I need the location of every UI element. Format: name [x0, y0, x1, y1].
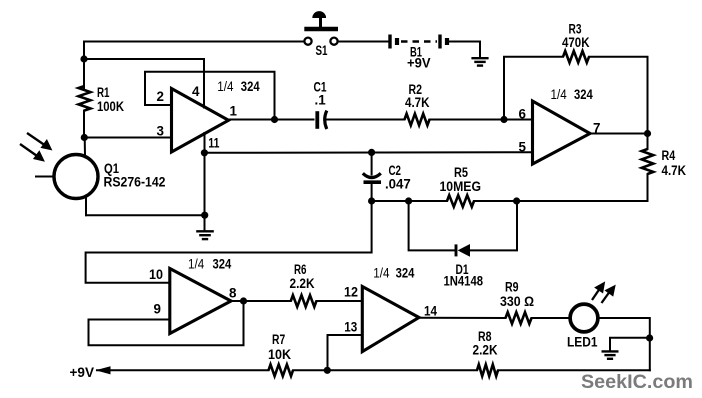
svg-text:2.2K: 2.2K — [473, 343, 498, 358]
LED light arrow 2 — [602, 286, 616, 303]
capacitor C1 flat plate — [315, 111, 319, 129]
LED1 body — [570, 304, 598, 332]
node: pin11 / pin5 net — [201, 149, 208, 156]
wire: U1D output to R9 — [419, 317, 506, 319]
phototransistor Q1 body — [54, 155, 98, 199]
resistor R9 — [506, 312, 532, 324]
wire: to R4 — [647, 134, 649, 150]
wire: R6 to U1D pin 12 — [316, 300, 362, 302]
resistor R5 — [447, 195, 474, 207]
wire: U1A output to C1 — [229, 119, 314, 121]
svg-text:1/4: 1/4 — [551, 86, 567, 102]
wire: R2 to U1B pin 6 — [430, 119, 533, 121]
svg-text:324: 324 — [213, 256, 232, 272]
svg-text:2: 2 — [157, 89, 164, 104]
ground symbol at LED — [602, 350, 619, 352]
wire: C2 top lead — [371, 152, 373, 174]
U1D pin 13 wire to rail — [328, 335, 363, 370]
svg-text:3: 3 — [157, 124, 164, 139]
battery B1 cell1 short plate — [395, 38, 399, 45]
light arrow 2 into Q1 — [20, 144, 44, 161]
R3 feedback: left riser — [504, 57, 563, 120]
op-amp U1B — [533, 101, 591, 164]
svg-text:1N4148: 1N4148 — [444, 274, 484, 289]
S1 stem — [319, 18, 322, 27]
wire: top rail left corner to S1 left terminal — [84, 41, 304, 43]
wire: R1 bottom to input node — [83, 111, 85, 138]
svg-text:10MEG: 10MEG — [440, 179, 482, 194]
op-amp U1C — [170, 269, 231, 334]
op-amp U1A — [172, 89, 229, 153]
U1C pin 9 loop — [89, 301, 244, 345]
svg-text:9: 9 — [154, 302, 161, 317]
battery B1 cell1 long plate — [388, 35, 391, 49]
S1 actuator bar — [304, 27, 338, 32]
resistor R8 — [477, 365, 498, 377]
svg-text:RS276-142: RS276-142 — [104, 174, 166, 190]
wire: left vertical from top rail to R1 top — [83, 42, 85, 89]
svg-text:10: 10 — [149, 267, 163, 282]
svg-text:1/4: 1/4 — [373, 265, 389, 281]
svg-text:1: 1 — [230, 104, 238, 119]
capacitor C2 curved plate — [363, 173, 381, 177]
svg-text:11: 11 — [208, 136, 219, 151]
Q1 emitter lead — [85, 196, 87, 216]
svg-text:14: 14 — [424, 304, 437, 319]
R3 feedback: right drop — [589, 57, 648, 134]
svg-text:R9: R9 — [505, 280, 519, 295]
svg-text:.1: .1 — [315, 93, 327, 108]
svg-text:12: 12 — [344, 285, 358, 300]
wire: C2 bottom to U1C pin 10 — [86, 201, 372, 283]
wire: U1C output — [231, 300, 291, 302]
switch S1 right terminal — [330, 38, 337, 45]
svg-text:470K: 470K — [562, 35, 590, 50]
node: D1 left — [405, 197, 412, 204]
svg-text:SeekIC.com: SeekIC.com — [581, 371, 693, 393]
capacitor C2 flat plate — [364, 180, 382, 184]
svg-text:+9V: +9V — [70, 364, 95, 380]
svg-text:324: 324 — [241, 78, 260, 94]
svg-text:R4: R4 — [662, 148, 676, 163]
svg-text:.047: .047 — [385, 177, 411, 192]
capacitor C1 curved plate — [325, 111, 327, 129]
resistor R6 — [291, 295, 317, 307]
switch S1 left terminal — [304, 38, 311, 45]
svg-text:R1: R1 — [97, 85, 110, 100]
node: U1C out / loop — [240, 297, 247, 304]
svg-text:13: 13 — [344, 320, 357, 335]
wire: Q1 emitter run — [86, 214, 205, 216]
resistor R3 — [563, 51, 589, 63]
wire: ground branch — [610, 338, 650, 351]
svg-text:R5: R5 — [454, 165, 468, 180]
node: +V branch junction — [80, 55, 87, 62]
svg-text:1/4: 1/4 — [188, 256, 204, 272]
battery B1 cell2 long plate — [438, 35, 441, 49]
LED light arrow 1 — [592, 282, 605, 300]
ground symbol at battery — [471, 57, 488, 59]
node: LED drop / ground branch — [646, 334, 653, 341]
svg-text:100K: 100K — [97, 99, 124, 114]
svg-text:+9V: +9V — [407, 56, 431, 71]
svg-text:10K: 10K — [268, 347, 291, 362]
resistor R7 — [269, 365, 294, 377]
wire: C2 bottom lead — [371, 184, 373, 201]
battery B1 cell2 short plate — [445, 38, 449, 45]
svg-text:4.7K: 4.7K — [662, 163, 687, 178]
wire: R4 bottom to R5 rail — [517, 174, 648, 201]
wire: U1B output — [590, 133, 648, 135]
svg-text:8: 8 — [229, 286, 237, 301]
wire: junction to U1A pin 4 drop — [84, 59, 204, 108]
wire: battery to ground — [449, 42, 480, 58]
svg-text:324: 324 — [396, 265, 415, 281]
node: pin 6 / R3 — [500, 116, 507, 123]
wire: node down to Q1 collector — [84, 138, 86, 157]
wire: pin 3 input — [84, 137, 172, 139]
wire: R9 to LED1 — [532, 317, 570, 319]
svg-text:324: 324 — [574, 86, 593, 102]
svg-text:R6: R6 — [294, 262, 307, 277]
R5 rail right segment — [474, 200, 517, 202]
Q1 base stub — [36, 176, 55, 178]
op-amp U1D — [362, 287, 419, 352]
R5 rail left segment — [372, 200, 447, 202]
+9V rail segments — [97, 369, 269, 371]
node: pin11 / Q1 emitter / ground — [201, 212, 208, 219]
svg-text:4.7K: 4.7K — [405, 95, 430, 110]
node: output / R3 / R4 — [644, 130, 651, 137]
+9V rail arrow head — [96, 366, 111, 374]
svg-text:LED1: LED1 — [567, 335, 598, 350]
wire: S1 to battery — [338, 41, 389, 43]
ground symbol below U1A — [196, 230, 214, 232]
svg-text:4: 4 — [192, 84, 200, 99]
svg-text:6: 6 — [519, 107, 526, 122]
wire: pin5 / pin11 net — [205, 151, 533, 154]
resistor R1 — [79, 86, 91, 111]
resistor R2 — [405, 114, 430, 126]
S1 button cap — [312, 11, 326, 18]
svg-text:1/4: 1/4 — [217, 78, 233, 94]
node: output / feedback loop — [271, 116, 278, 123]
wire: LED1 to right drop — [598, 318, 650, 370]
U1A pin 11 drop to ground — [204, 133, 206, 231]
U1A pin-2 to output loop — [145, 72, 275, 120]
D1 loop left/bottom wire — [409, 201, 454, 250]
diode D1 body — [458, 244, 470, 257]
diode D1 cathode bar — [455, 244, 458, 256]
battery dashed link — [401, 40, 437, 43]
svg-text:S1: S1 — [316, 43, 328, 58]
node: R1 / Q1 / pin 3 — [81, 134, 88, 141]
svg-text:330 Ω: 330 Ω — [500, 294, 534, 309]
svg-text:2.2K: 2.2K — [290, 276, 315, 291]
node: C2 top — [368, 149, 375, 156]
light arrow 1 into Q1 — [27, 133, 52, 150]
wire: C1 to R2 — [327, 119, 405, 121]
node: C2 bottom / R5 rail — [368, 197, 375, 204]
svg-text:R7: R7 — [272, 332, 285, 347]
node: D1 right — [513, 197, 520, 204]
resistor R4 — [642, 149, 654, 174]
D1 loop right wire — [470, 201, 517, 250]
node: R7 / pin 13 — [324, 367, 331, 374]
